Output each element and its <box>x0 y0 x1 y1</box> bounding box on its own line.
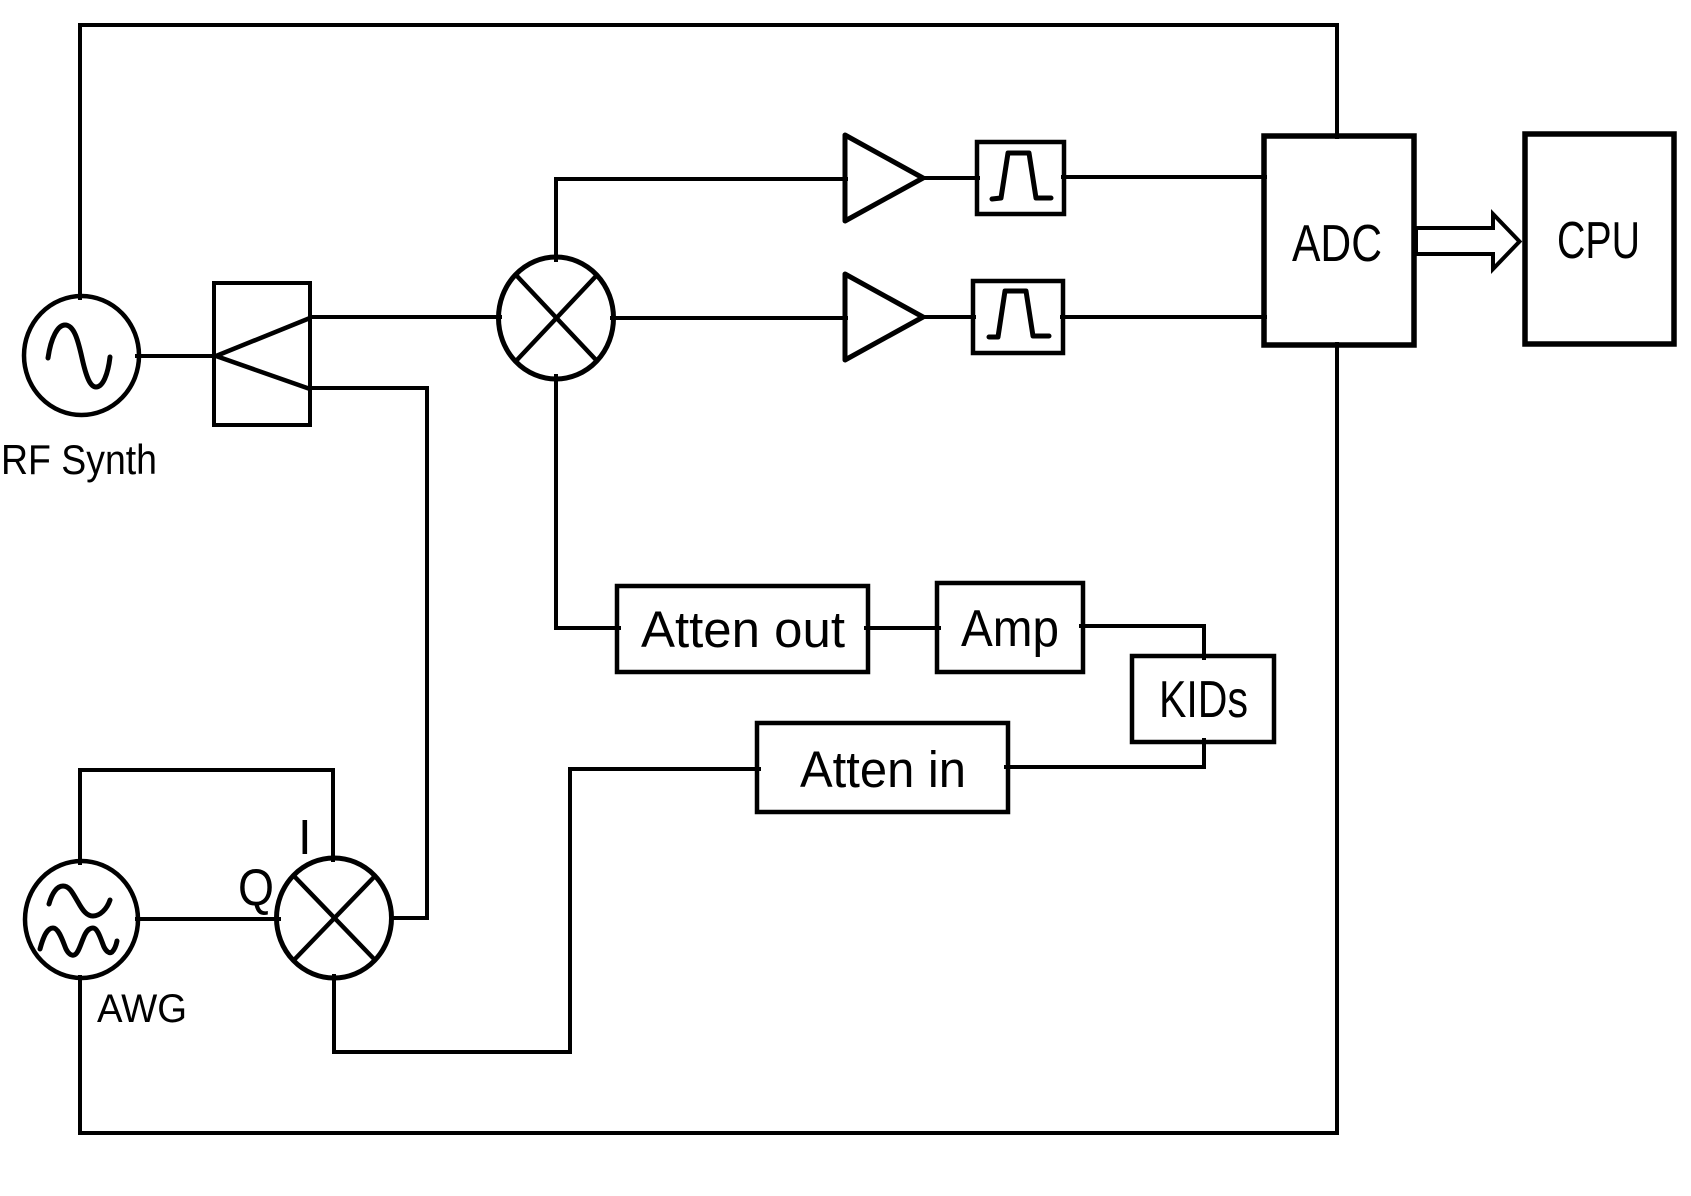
svg-text:CPU: CPU <box>1557 212 1640 270</box>
svg-text:Atten in: Atten in <box>800 741 966 798</box>
svg-text:ADC: ADC <box>1292 215 1382 273</box>
svg-text:I: I <box>298 811 312 865</box>
svg-text:Atten out: Atten out <box>641 601 845 658</box>
svg-text:Amp: Amp <box>961 600 1059 658</box>
svg-text:AWG: AWG <box>97 987 187 1031</box>
svg-text:Q: Q <box>238 859 274 917</box>
svg-text:KIDs: KIDs <box>1159 671 1248 729</box>
svg-text:RF Synth: RF Synth <box>1 436 157 483</box>
